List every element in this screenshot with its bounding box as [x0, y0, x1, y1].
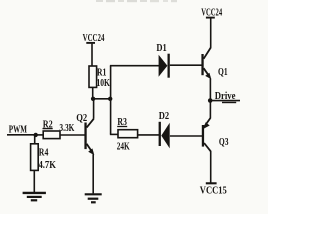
wire D1 to Q1 base	[170, 64, 202, 66]
wire Drive output	[210, 100, 240, 102]
diode D2	[159, 122, 170, 149]
wire Q1 emitter down	[209, 79, 211, 101]
wire PWM node to R4	[34, 135, 36, 145]
wire VCC24 to R1	[91, 44, 93, 67]
resistor R2	[43, 131, 60, 139]
wire node line	[92, 98, 111, 100]
svg-text:24K: 24K	[117, 142, 130, 153]
power symbol VCC24 (right)	[201, 8, 222, 19]
svg-text:10K: 10K	[97, 78, 111, 89]
wire R2 to Q2 base	[60, 134, 85, 136]
svg-text:D1: D1	[156, 43, 166, 54]
junction dot Drive node	[208, 98, 213, 103]
label R2	[43, 119, 53, 130]
transistor Q2	[84, 119, 94, 155]
junction dot right	[108, 97, 112, 101]
wire R1 bottom	[92, 87, 94, 99]
svg-text:4.7K: 4.7K	[39, 160, 57, 171]
svg-text:Q2: Q2	[76, 113, 87, 124]
svg-text:Q3: Q3	[219, 137, 229, 148]
svg-text:D2: D2	[159, 111, 169, 122]
resistor R3	[118, 130, 138, 138]
resistor R1	[89, 66, 97, 87]
svg-text:Drive: Drive	[215, 91, 236, 102]
wire Q2 emitter to ground	[92, 154, 94, 193]
junction dot left	[91, 97, 95, 101]
label Drive	[215, 91, 237, 102]
wire riser	[110, 66, 112, 135]
transistor Q3	[202, 101, 211, 183]
wire Q2 collector to node	[93, 99, 95, 119]
wire Q1 collector to VCC24	[210, 18, 212, 48]
wire riser to R3	[110, 133, 119, 135]
wire PWM	[7, 134, 36, 136]
ground under Q2	[85, 194, 102, 202]
wire to R2	[36, 134, 44, 136]
wire R4 to ground	[33, 170, 35, 192]
power symbol VCC15	[200, 183, 227, 196]
svg-text:R4: R4	[39, 147, 49, 158]
wire R3 to D2	[137, 134, 159, 136]
faint cropped text at top	[96, 0, 177, 2]
ground under R4	[23, 193, 46, 200]
wire to D1	[110, 65, 159, 67]
junction dot PWM node	[34, 133, 38, 137]
wire D2 to Q3 base	[170, 135, 202, 137]
transistor Q1	[201, 47, 211, 79]
label R3	[117, 117, 127, 128]
svg-text:VCC15: VCC15	[200, 185, 227, 196]
diode D1	[159, 54, 170, 78]
svg-text:3.3K: 3.3K	[59, 123, 74, 134]
resistor R4	[31, 144, 39, 171]
power symbol VCC24 (left)	[83, 33, 105, 44]
svg-text:Q1: Q1	[218, 67, 228, 78]
svg-text:PWM: PWM	[9, 125, 28, 136]
